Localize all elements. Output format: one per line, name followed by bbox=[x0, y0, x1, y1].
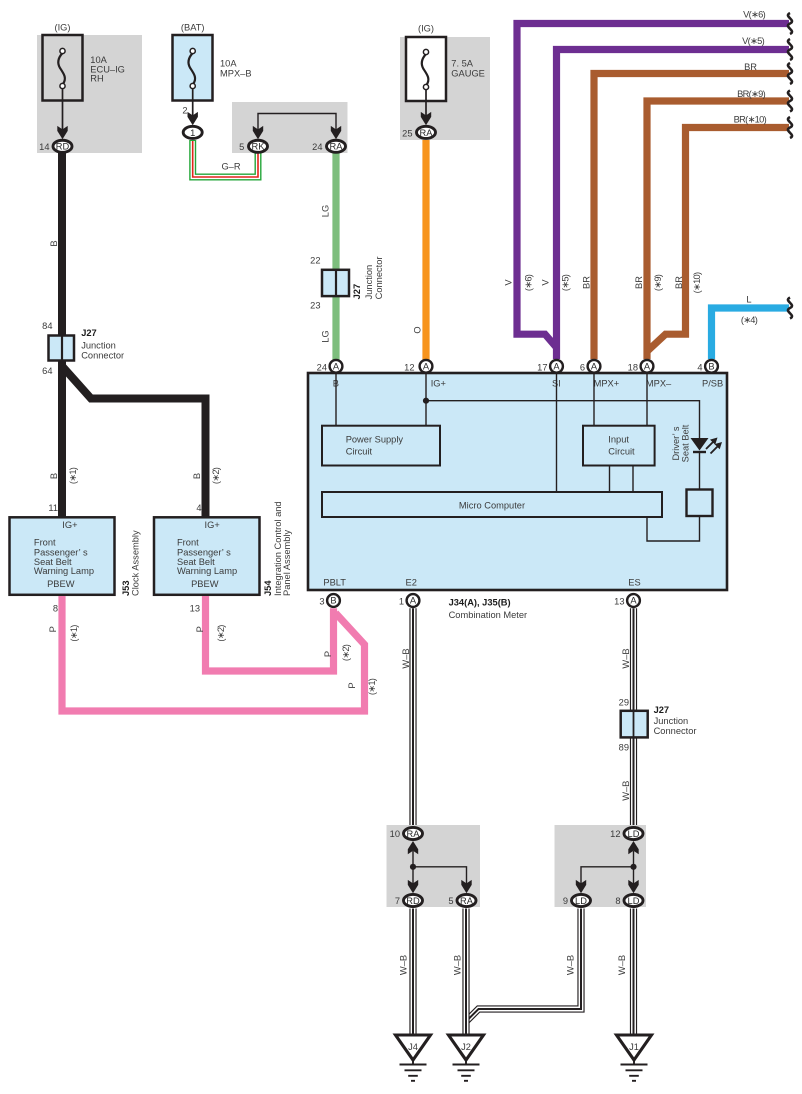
svg-text:J1: J1 bbox=[629, 1042, 639, 1052]
svg-text:BR: BR bbox=[744, 62, 757, 72]
connector terminal 14 RD bbox=[53, 140, 72, 152]
svg-text:12: 12 bbox=[610, 829, 620, 839]
svg-text:G–R: G–R bbox=[221, 162, 240, 172]
svg-text:B: B bbox=[49, 240, 59, 246]
svg-text:(BAT): (BAT) bbox=[181, 23, 205, 33]
wire micro computer to block bbox=[647, 516, 700, 541]
svg-text:BR: BR bbox=[634, 276, 644, 289]
svg-text:P: P bbox=[323, 651, 333, 657]
label O on wire bbox=[413, 326, 423, 333]
svg-text:MPX–: MPX– bbox=[646, 379, 672, 389]
connector terminal 9 LD bbox=[572, 894, 591, 906]
arrow into terminal 1 bbox=[188, 112, 198, 125]
svg-text:25: 25 bbox=[402, 128, 412, 138]
svg-text:Panel Assembly: Panel Assembly bbox=[282, 530, 292, 596]
svg-text:(∗2): (∗2) bbox=[341, 644, 351, 661]
svg-text:10A: 10A bbox=[220, 58, 237, 68]
svg-text:Clock Assembly: Clock Assembly bbox=[131, 530, 141, 596]
svg-text:22: 22 bbox=[310, 256, 320, 266]
svg-text:IG+: IG+ bbox=[205, 520, 220, 530]
internal wire IG+ to power supply bbox=[425, 373, 427, 426]
fuse GAUGE (IG) bbox=[406, 37, 446, 101]
wire G-R (green-red) from fuse MPX-B pin 1 to 5 RK bbox=[193, 140, 258, 177]
svg-text:O: O bbox=[413, 326, 423, 333]
svg-text:P: P bbox=[347, 682, 357, 688]
svg-text:(∗1): (∗1) bbox=[367, 678, 377, 695]
resistor block square bbox=[687, 490, 713, 517]
connector terminal 5 RK bbox=[249, 140, 268, 152]
svg-text:4: 4 bbox=[697, 362, 702, 372]
label B (*2) on wire to J54 bbox=[192, 473, 202, 479]
svg-text:RA: RA bbox=[420, 128, 434, 138]
svg-text:B: B bbox=[192, 473, 202, 479]
arrow into 5 RA bbox=[461, 880, 471, 893]
svg-text:W–B: W–B bbox=[617, 955, 627, 975]
svg-text:14: 14 bbox=[39, 142, 49, 152]
svg-text:BR: BR bbox=[582, 276, 592, 289]
connector terminal 25 RA bbox=[417, 126, 436, 138]
svg-text:BR: BR bbox=[674, 276, 684, 289]
svg-text:B: B bbox=[49, 473, 59, 479]
svg-text:Front: Front bbox=[34, 538, 56, 548]
svg-text:Connector: Connector bbox=[374, 256, 384, 299]
svg-text:84: 84 bbox=[42, 321, 52, 331]
svg-text:P: P bbox=[48, 626, 58, 632]
combination meter J34(A) J35(B) box bbox=[308, 373, 727, 590]
terminal 1 A E2 bbox=[407, 594, 420, 607]
svg-text:(∗4): (∗4) bbox=[741, 315, 758, 325]
wire fuse ECU-IG output bbox=[62, 88, 64, 130]
label W-B wire 9LD bbox=[566, 955, 576, 975]
label W-B on ES wire bbox=[621, 648, 631, 668]
svg-text:LD: LD bbox=[628, 829, 640, 839]
svg-text:Combination Meter: Combination Meter bbox=[449, 610, 528, 620]
svg-text:L: L bbox=[746, 295, 751, 305]
svg-text:BR(∗10): BR(∗10) bbox=[734, 115, 767, 125]
svg-text:18: 18 bbox=[628, 362, 638, 372]
input circuit box bbox=[583, 426, 655, 466]
svg-text:24: 24 bbox=[312, 142, 322, 152]
LED light arrows bbox=[706, 441, 714, 449]
junction dot bbox=[410, 864, 416, 870]
wire B branch to J54 pin 4 bbox=[62, 366, 206, 517]
wire B (black) from fuse ECU-IG to J53 pin 11 bbox=[58, 152, 66, 517]
junction connector J27 on B wire bbox=[49, 336, 75, 361]
terminal 24 A bbox=[330, 360, 343, 373]
svg-text:Junction: Junction bbox=[81, 340, 116, 350]
terminal 12 A bbox=[420, 360, 433, 373]
svg-text:B: B bbox=[708, 362, 714, 372]
wire BR brown bbox=[594, 74, 789, 360]
label Driver's Seat Belt (rotated) bbox=[671, 426, 681, 460]
svg-text:P: P bbox=[195, 626, 205, 632]
wire W-B from 5 RA to ground J2 bbox=[462, 909, 469, 1037]
connector terminal 5 RA bbox=[457, 894, 476, 906]
connector terminal 12 LD bbox=[624, 827, 643, 839]
svg-text:Power Supply: Power Supply bbox=[346, 435, 404, 445]
terminal 13 A ES bbox=[627, 594, 640, 607]
break squiggle L(*4) bbox=[788, 298, 792, 319]
svg-text:1: 1 bbox=[190, 128, 195, 138]
label P (*2) right bbox=[323, 651, 333, 657]
svg-text:(∗6): (∗6) bbox=[524, 274, 534, 291]
ground J1 bbox=[617, 1035, 652, 1081]
shaded block behind connectors 10 RA / 7 RD / 5 RA bbox=[387, 825, 481, 907]
wire W-B from 7 RD to ground J4 bbox=[409, 909, 416, 1037]
internal wire MPX- to input circuit bbox=[646, 373, 648, 426]
svg-text:64: 64 bbox=[42, 366, 52, 376]
terminal 6 A bbox=[588, 360, 601, 373]
shaded block behind connectors 12 LD / 9 LD / 8 LD bbox=[555, 825, 647, 907]
label B (*1) on wire to J53 bbox=[49, 473, 59, 479]
terminal 17 A bbox=[550, 360, 563, 373]
arrow into 14 RD bbox=[57, 126, 67, 139]
svg-text:W–B: W–B bbox=[566, 955, 576, 975]
svg-text:13: 13 bbox=[190, 604, 200, 614]
wire 10 RA to junction dot bbox=[412, 851, 414, 867]
svg-text:GAUGE: GAUGE bbox=[451, 69, 485, 79]
svg-text:J53: J53 bbox=[121, 580, 131, 596]
wire W-B from 9 LD to join J2 wire bbox=[466, 909, 581, 1022]
svg-text:V: V bbox=[504, 279, 514, 286]
shaded block behind fuse GAUGE bbox=[400, 37, 490, 140]
svg-text:(∗2): (∗2) bbox=[211, 467, 221, 484]
arrow into 8 LD bbox=[628, 880, 638, 893]
label J53 Clock Assembly (rotated) bbox=[121, 580, 131, 596]
svg-text:RA: RA bbox=[330, 142, 344, 152]
label P (*1) right bbox=[347, 682, 357, 688]
svg-text:(∗5): (∗5) bbox=[561, 274, 571, 291]
junction dot bbox=[423, 398, 429, 404]
break squiggle V(*5) bbox=[788, 39, 792, 60]
svg-text:LG: LG bbox=[321, 205, 331, 217]
connector terminal 24 RA bbox=[327, 140, 346, 152]
wires input circuit to micro computer bbox=[610, 466, 634, 493]
svg-text:PBEW: PBEW bbox=[191, 579, 219, 589]
svg-text:MPX+: MPX+ bbox=[594, 379, 620, 389]
label P (*2) left bbox=[195, 626, 205, 632]
svg-text:23: 23 bbox=[310, 301, 320, 311]
svg-text:11: 11 bbox=[48, 503, 58, 513]
label W-B on E2 wire bbox=[401, 648, 411, 668]
wire O (orange) from 25 RA to combination meter 12 A bbox=[422, 140, 429, 360]
warning lamp box J53 clock assembly bbox=[10, 517, 115, 595]
svg-text:LD: LD bbox=[628, 896, 640, 906]
svg-text:MPX–B: MPX–B bbox=[220, 69, 252, 79]
internal wire MPX+ to input circuit bbox=[593, 373, 595, 426]
ground J2 bbox=[449, 1035, 484, 1081]
label W-B wire 5RA bbox=[453, 955, 463, 975]
svg-text:13: 13 bbox=[614, 597, 624, 607]
svg-text:PBEW: PBEW bbox=[47, 579, 75, 589]
svg-text:5: 5 bbox=[239, 142, 244, 152]
label P (*1) left bbox=[48, 626, 58, 632]
svg-text:BR(∗9): BR(∗9) bbox=[737, 89, 765, 99]
internal wire SI to micro computer bbox=[556, 373, 558, 492]
arrow into 24 RA bbox=[331, 126, 341, 139]
fuse ECU-IG RH (IG) bbox=[43, 35, 83, 101]
junction dot bbox=[630, 864, 636, 870]
label B on wire bbox=[49, 240, 59, 246]
wire V(*5) purple bbox=[557, 50, 790, 360]
svg-text:ES: ES bbox=[628, 578, 640, 588]
svg-text:IG+: IG+ bbox=[62, 520, 77, 530]
ground J4 bbox=[396, 1035, 431, 1081]
svg-text:6: 6 bbox=[580, 362, 585, 372]
svg-text:Junction: Junction bbox=[364, 265, 374, 300]
wire W-B from E2 1 A down to 10 RA bbox=[409, 608, 416, 825]
svg-text:Connector: Connector bbox=[654, 726, 697, 736]
label W-B wire 7RD bbox=[399, 955, 409, 975]
svg-text:Warning Lamp: Warning Lamp bbox=[34, 566, 94, 576]
svg-text:(IG): (IG) bbox=[54, 23, 70, 33]
arrow into 9 LD bbox=[576, 880, 586, 893]
svg-text:9: 9 bbox=[563, 896, 568, 906]
label LG upper bbox=[321, 205, 331, 217]
svg-text:Warning Lamp: Warning Lamp bbox=[177, 566, 237, 576]
wire bridge to 9 LD bbox=[581, 867, 634, 884]
svg-text:Seat Belt: Seat Belt bbox=[680, 424, 690, 462]
micro computer box bbox=[322, 492, 662, 517]
break squiggle BR(*9) bbox=[788, 91, 792, 112]
svg-text:P/SB: P/SB bbox=[702, 379, 723, 389]
LED driver's seat belt bbox=[691, 438, 709, 451]
wire W-B from ES 13 A down to 12 LD bbox=[630, 608, 637, 825]
svg-text:W–B: W–B bbox=[453, 955, 463, 975]
power supply circuit box bbox=[322, 426, 440, 466]
svg-text:W–B: W–B bbox=[401, 648, 411, 668]
arrow into 5 RK bbox=[253, 126, 263, 139]
label W-B wire 8LD bbox=[617, 955, 627, 975]
svg-text:LD: LD bbox=[575, 896, 587, 906]
svg-text:A: A bbox=[591, 362, 598, 372]
label LG lower bbox=[321, 330, 331, 342]
svg-text:J4: J4 bbox=[408, 1042, 418, 1052]
rotated wire labels V (*6) V (*5) BR BR (*9) BR (*10) bbox=[504, 279, 514, 286]
arrow up into 10 RA bbox=[408, 841, 418, 854]
svg-text:8: 8 bbox=[615, 896, 620, 906]
terminal 3 B PBLT bbox=[327, 594, 340, 607]
wire bridge 5 RK to 24 RA bbox=[258, 114, 336, 131]
terminal 18 A bbox=[641, 360, 654, 373]
svg-text:A: A bbox=[630, 596, 637, 606]
junction connector J27 on ES wire bbox=[621, 711, 648, 738]
svg-text:V(∗6): V(∗6) bbox=[743, 10, 765, 20]
wire P(*1) pink from 3 B to J53 pin 8 bbox=[62, 596, 365, 711]
svg-text:10: 10 bbox=[390, 829, 400, 839]
svg-text:J34(A), J35(B): J34(A), J35(B) bbox=[449, 598, 511, 608]
warning lamp box J54 integration control and panel assembly bbox=[154, 517, 260, 595]
label J54 Integration Control and Panel Assembly (rotated) bbox=[263, 580, 273, 596]
wire P(*2) pink from 3 B to J54 pin 13 bbox=[206, 596, 334, 671]
svg-text:Passenger’ s: Passenger’ s bbox=[34, 547, 88, 557]
svg-text:8: 8 bbox=[53, 604, 58, 614]
svg-text:RD: RD bbox=[406, 896, 420, 906]
svg-text:RK: RK bbox=[252, 142, 266, 152]
connector terminal 7 RD bbox=[404, 894, 423, 906]
svg-text:Circuit: Circuit bbox=[608, 447, 635, 457]
svg-text:A: A bbox=[333, 362, 340, 372]
label W-B below J27 bbox=[621, 781, 631, 801]
svg-text:E2: E2 bbox=[406, 578, 417, 588]
svg-text:A: A bbox=[644, 362, 651, 372]
svg-text:3: 3 bbox=[319, 597, 324, 607]
svg-text:B: B bbox=[330, 596, 336, 606]
svg-text:4: 4 bbox=[196, 503, 201, 513]
connector terminal 10 RA bbox=[404, 827, 423, 839]
wire L(*4) blue bbox=[712, 308, 790, 359]
internal wire IG+ branch to LED bbox=[426, 401, 700, 438]
svg-text:A: A bbox=[553, 362, 560, 372]
wire LG (light green) from 24 RA to combination meter 24 A bbox=[332, 152, 339, 360]
svg-text:A: A bbox=[410, 596, 417, 606]
svg-text:W–B: W–B bbox=[621, 781, 631, 801]
svg-text:Junction: Junction bbox=[654, 716, 689, 726]
svg-text:2: 2 bbox=[182, 105, 187, 115]
svg-text:7: 7 bbox=[395, 896, 400, 906]
svg-text:PBLT: PBLT bbox=[323, 578, 346, 588]
svg-text:Micro Computer: Micro Computer bbox=[459, 501, 525, 511]
svg-text:Front: Front bbox=[177, 538, 199, 548]
connector terminal 8 LD bbox=[624, 894, 643, 906]
svg-text:W–B: W–B bbox=[621, 648, 631, 668]
wire V(*6) purple bbox=[517, 24, 789, 348]
wire W-B from 8 LD to ground J1 bbox=[630, 909, 637, 1037]
svg-text:Passenger’ s: Passenger’ s bbox=[177, 547, 231, 557]
shaded block behind connectors 5 RK / 24 RA bbox=[232, 102, 348, 153]
svg-text:89: 89 bbox=[619, 743, 629, 753]
internal wire B to power supply bbox=[335, 373, 337, 426]
svg-text:RD: RD bbox=[56, 142, 70, 152]
svg-text:(∗1): (∗1) bbox=[69, 625, 79, 642]
break squiggle BR bbox=[788, 63, 792, 84]
terminal 4 B bbox=[705, 360, 718, 373]
svg-text:RA: RA bbox=[460, 896, 474, 906]
wire fuse MPX-B output bbox=[192, 88, 194, 116]
svg-text:J27: J27 bbox=[81, 328, 97, 338]
wire BR(*10) brown bbox=[648, 128, 789, 351]
svg-text:Input: Input bbox=[608, 435, 629, 445]
fuse MPX-B (BAT) bbox=[173, 35, 213, 101]
svg-text:(∗2): (∗2) bbox=[216, 625, 226, 642]
svg-text:24: 24 bbox=[317, 362, 327, 372]
wire fuse GAUGE output bbox=[425, 89, 427, 116]
svg-text:J27: J27 bbox=[654, 705, 670, 715]
junction connector J27 on LG wire bbox=[322, 270, 349, 296]
shaded block behind fuse ECU-IG bbox=[37, 35, 142, 153]
label J27 Junction Connector (rotated) bbox=[352, 284, 362, 300]
svg-text:Connector: Connector bbox=[81, 351, 124, 361]
svg-text:W–B: W–B bbox=[399, 955, 409, 975]
svg-text:V(∗5): V(∗5) bbox=[742, 36, 764, 46]
svg-text:RA: RA bbox=[407, 829, 421, 839]
svg-text:LG: LG bbox=[321, 330, 331, 342]
break squiggle V(*6) bbox=[788, 13, 792, 34]
svg-text:J27: J27 bbox=[352, 284, 362, 300]
svg-text:Circuit: Circuit bbox=[346, 447, 373, 457]
svg-text:A: A bbox=[423, 362, 430, 372]
svg-text:(∗1): (∗1) bbox=[68, 467, 78, 484]
svg-text:J54: J54 bbox=[263, 580, 273, 596]
svg-text:1: 1 bbox=[399, 597, 404, 607]
connector terminal 1 bbox=[183, 126, 202, 138]
arrow up into 12 LD bbox=[628, 841, 638, 854]
arrow into 25 RA bbox=[421, 112, 431, 125]
svg-text:(∗10): (∗10) bbox=[692, 272, 702, 293]
svg-text:5: 5 bbox=[448, 896, 453, 906]
svg-text:17: 17 bbox=[537, 362, 547, 372]
wire 12 LD to junction dot bbox=[633, 851, 635, 867]
svg-text:7. 5A: 7. 5A bbox=[451, 58, 474, 68]
svg-text:J2: J2 bbox=[461, 1042, 471, 1052]
wire BR(*9) brown bbox=[647, 101, 789, 359]
svg-text:(IG): (IG) bbox=[418, 24, 434, 34]
svg-text:(∗9): (∗9) bbox=[653, 274, 663, 291]
svg-text:IG+: IG+ bbox=[431, 379, 446, 389]
arrow into 7 RD bbox=[408, 880, 418, 893]
wire bridge to 5 RA bbox=[413, 867, 467, 884]
svg-text:29: 29 bbox=[619, 698, 629, 708]
svg-text:RH: RH bbox=[90, 74, 103, 84]
svg-text:V: V bbox=[541, 279, 551, 286]
svg-text:12: 12 bbox=[404, 362, 414, 372]
break squiggle BR(*10) bbox=[788, 117, 792, 138]
